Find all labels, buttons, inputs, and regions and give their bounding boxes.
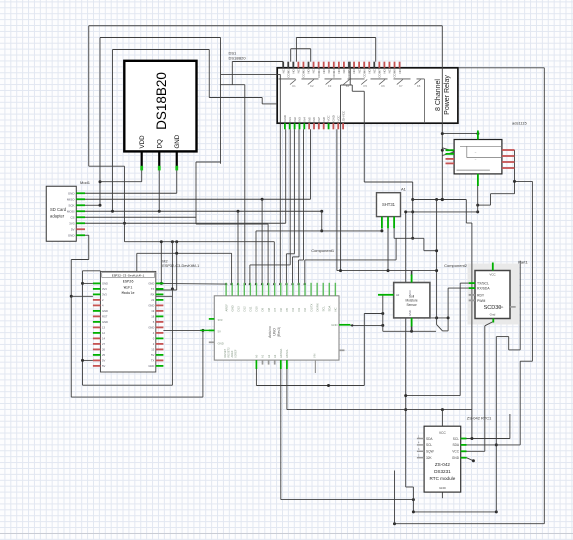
wire net-A corner H y166: [89, 165, 125, 167]
wire trunk y409.6: [287, 409, 472, 411]
wire net-C horizontal y49.5: [113, 49, 210, 51]
wire stair x340.5: [340, 85, 342, 271]
svg-text:GND: GND: [148, 364, 154, 368]
wire trunk y253.3: [137, 252, 232, 254]
node junction x477.9 y133.6: [476, 132, 479, 135]
wire DS1-label horizontal y61.5: [232, 61, 283, 63]
temperature sensor DS18B20 U-DS1: [124, 61, 196, 171]
node stem top cap x256: [255, 283, 257, 285]
adc module ads1115: [446, 131, 515, 187]
svg-text:MOSI: MOSI: [67, 210, 75, 214]
co2 sensor SCD30 Part1: [469, 263, 516, 323]
node junction x411.6 y331.3: [410, 330, 413, 333]
svg-text:GND: GND: [452, 456, 460, 460]
svg-text:25: 25: [102, 353, 105, 357]
svg-text:GND: GND: [102, 282, 108, 286]
wire stair H y85: [341, 84, 353, 86]
svg-text:NO: NO: [367, 68, 371, 73]
wire RTC top VCC drop: [441, 410, 443, 427]
wire ads stair H y205.1: [478, 204, 491, 206]
wire V x336.9: [336, 129, 338, 270]
wire stem5 x249.9: [249, 265, 251, 284]
node stem top cap x231.6: [230, 283, 232, 285]
svg-text:TX: TX: [151, 287, 155, 291]
node junction x412.7 y199.5: [411, 198, 414, 201]
wire H y259.9 right: [305, 259, 396, 261]
node stem top cap x274.3: [273, 283, 275, 285]
node junction x412.7 y211.9: [411, 210, 414, 213]
wire net-C horizontal y103.9: [262, 103, 277, 105]
node junction x176.7 y241.7: [175, 240, 178, 243]
wire relay-top U link: [291, 48, 311, 50]
svg-text:Component2: Component2: [444, 263, 468, 268]
svg-text:SEL: SEL: [498, 305, 504, 309]
wire stem6 x256: [255, 231, 257, 284]
wire H y199.5 right: [413, 199, 467, 201]
node stem top cap x226.1: [225, 283, 227, 285]
wire net-C vertical x262.2: [261, 98, 263, 104]
svg-text:ESP26: ESP26: [123, 281, 134, 285]
svg-text:JD-VCC: JD-VCC: [341, 111, 345, 122]
node junction x82.5 y283.4: [81, 282, 84, 285]
wire V x520.2 lower to RTC SDA: [519, 361, 521, 445]
svg-text:SCL: SCL: [453, 437, 459, 441]
rtc module ZS-042 DS3231 RTC1: [417, 426, 467, 492]
svg-text:5V: 5V: [102, 364, 105, 368]
svg-text:VCC: VCC: [439, 431, 446, 435]
wire relay-top horizontal y37.5: [296, 37, 375, 39]
svg-text:NC: NC: [281, 69, 285, 73]
svg-text:ZS-042: ZS-042: [435, 462, 451, 467]
svg-text:5V: 5V: [102, 359, 105, 363]
svg-text:K2: K2: [310, 84, 314, 88]
node junction x71.25 y296.3: [70, 295, 73, 298]
wire relay inner V x350.2: [349, 62, 351, 85]
node junction x388 y270.6: [387, 269, 390, 272]
wire MCU A5 drop x286.9: [286, 369, 288, 410]
svg-text:Arduino: Arduino: [268, 326, 272, 338]
node junction x394.5 y523.7: [393, 522, 396, 525]
node junction x436.6 y250.7: [435, 249, 438, 252]
svg-text:NC: NC: [297, 69, 301, 73]
svg-text:DQ: DQ: [156, 139, 163, 148]
node junction x496.3 y444.9: [495, 443, 498, 446]
wire V x496.3: [495, 337, 497, 512]
svg-text:IN2: IN2: [293, 117, 297, 122]
wire SCD SDA H: [448, 287, 469, 289]
svg-text:IN4: IN4: [303, 117, 307, 122]
svg-text:RST: RST: [102, 315, 108, 319]
svg-text:SD Card: SD Card: [50, 207, 67, 212]
svg-text:NO: NO: [292, 68, 296, 73]
wire stair x364.25: [363, 91, 365, 182]
wire H y511.9: [413, 511, 496, 513]
wire V x448.1: [447, 288, 449, 331]
svg-text:VIN: VIN: [312, 354, 316, 358]
sd card adapter module Mod1: [46, 186, 85, 241]
svg-text:adapter: adapter: [50, 214, 65, 219]
wire H y264.9: [250, 264, 290, 266]
svg-text:3V3: 3V3: [218, 318, 223, 322]
wire RTC SCL H: [461, 438, 510, 440]
node junction x436.6 y270.6: [435, 269, 438, 272]
svg-text:GND: GND: [102, 320, 108, 324]
svg-text:D13: D13: [236, 306, 240, 312]
svg-text:M2: M2: [162, 260, 167, 264]
wire stem8 vertical x268.1: [267, 224, 269, 284]
wire ads left diag1: [442, 148, 454, 152]
node junction x161.3 y241.7: [160, 240, 163, 243]
wire stair right down: [520, 360, 532, 362]
wire SD SCK row y205.25: [85, 204, 100, 206]
svg-text:ESP32-C3-DevKitM-1: ESP32-C3-DevKitM-1: [112, 273, 145, 277]
wire MCU GND H y325.4: [351, 324, 383, 326]
wire SHT pin2 drop: [387, 228, 389, 270]
node junction x321.75 y230.9: [320, 229, 323, 232]
wire RTC bottom stub: [441, 492, 443, 498]
wire H y331.3: [383, 330, 436, 332]
svg-text:NC: NC: [342, 69, 346, 73]
node junction x442.3 y133.6: [441, 132, 444, 135]
svg-text:D4: D4: [291, 307, 295, 311]
wire SCD GND diag: [485, 322, 494, 326]
svg-text:Component1: Component1: [311, 248, 335, 253]
svg-text:GND: GND: [331, 323, 337, 327]
svg-text:NC: NC: [372, 69, 376, 73]
wire soil left V x382.8: [382, 295, 384, 332]
wire SHT pin3 path: [393, 228, 395, 238]
wire H y487 jog: [406, 486, 414, 488]
svg-text:RESET: RESET: [223, 348, 227, 357]
wire SD CS row y217.25: [85, 216, 196, 218]
svg-text:COM7: COM7: [378, 69, 382, 78]
svg-text:SDA: SDA: [426, 437, 433, 441]
wire trunk y211.9: [406, 211, 478, 213]
wire stem3 vertical x238: [237, 211, 239, 284]
svg-text:D8: D8: [267, 307, 271, 311]
svg-text:IOREF: IOREF: [234, 349, 238, 357]
svg-text:18: 18: [151, 315, 154, 319]
svg-text:CS: CS: [70, 216, 74, 220]
node junction x405.7 y409.6: [404, 408, 407, 411]
node junction x100 y205.25: [99, 204, 102, 207]
svg-text:3V3: 3V3: [69, 222, 75, 226]
svg-text:D7: D7: [273, 307, 277, 311]
wire SCD SCL H: [460, 282, 469, 284]
node junction x112.5 y211.25: [111, 210, 114, 213]
svg-text:TX/SCL: TX/SCL: [477, 282, 489, 286]
svg-text:GND: GND: [439, 486, 447, 490]
wire SD MOSI trunk y211.25: [85, 210, 322, 212]
svg-text:22: 22: [151, 298, 154, 302]
wire ads VCC H y133.6: [442, 133, 478, 135]
node junction x262.1 y199.25: [261, 198, 264, 201]
svg-text:PWM: PWM: [477, 299, 485, 303]
svg-text:A0: A0: [396, 293, 400, 297]
page boundary line: [0, 533, 573, 535]
svg-text:32K: 32K: [426, 456, 433, 460]
svg-text:GND: GND: [230, 305, 234, 311]
wire V x405.7: [405, 212, 407, 487]
wire MCU left pin1 green stub: [200, 329, 214, 331]
svg-text:A4/SDA: A4/SDA: [279, 349, 283, 358]
wire net-B vertical x220.5 upper: [220, 38, 222, 75]
svg-text:IN3: IN3: [298, 117, 302, 122]
node stem top cap x244.8: [244, 283, 246, 285]
svg-text:5V: 5V: [218, 330, 222, 334]
wire H y499.6: [281, 499, 414, 501]
wire V x310.5 relay IN4: [310, 129, 312, 199]
svg-text:IN6: IN6: [312, 117, 316, 122]
wire soil bottom drop: [411, 326, 413, 331]
wire net-A vertical left: [88, 26, 90, 166]
wire relay IN4 drop: [303, 129, 305, 260]
wire V x176.7: [176, 242, 178, 290]
svg-text:A1: A1: [401, 187, 407, 192]
svg-text:COM1: COM1: [286, 69, 290, 78]
wire V x460.2: [459, 283, 461, 396]
svg-text:8 Channel: 8 Channel: [435, 79, 442, 111]
wire H y223 jog: [466, 222, 472, 224]
svg-text:AREF: AREF: [224, 304, 228, 312]
svg-text:NO: NO: [352, 68, 356, 73]
wire V x413.4: [412, 487, 414, 512]
wire V x202.9: [202, 330, 204, 397]
svg-text:VDD: VDD: [139, 135, 146, 149]
svg-text:GND: GND: [174, 134, 181, 148]
svg-text:5V: 5V: [71, 228, 75, 232]
node junction x477.7 y211.9: [476, 210, 479, 213]
svg-text:D5: D5: [285, 307, 289, 311]
svg-text:VCC: VCC: [336, 115, 340, 121]
humidity sensor SHT31 A1: [377, 193, 401, 229]
svg-text:Sensor: Sensor: [407, 303, 418, 307]
svg-text:NO: NO: [337, 68, 341, 73]
svg-text:K4: K4: [346, 84, 350, 88]
svg-text:~: ~: [475, 158, 477, 162]
wire vertical x220.5 y74-84: [220, 74, 222, 84]
svg-text:D11: D11: [249, 306, 253, 311]
svg-text:SDA: SDA: [452, 443, 459, 447]
svg-text:DS3231: DS3231: [434, 469, 451, 474]
svg-text:GND: GND: [148, 304, 154, 308]
wire V x136.8 to module top: [136, 253, 138, 271]
wire H y395.6: [406, 395, 461, 397]
svg-text:D10: D10: [255, 306, 259, 312]
svg-text:GND: GND: [218, 341, 224, 345]
node junction x328.5 y385.5: [327, 384, 330, 387]
wire DS DQ pin drop: [158, 169, 160, 211]
wire trunk y270.6: [337, 270, 437, 272]
wire net-B horizontal y74.4: [221, 73, 281, 75]
svg-text:Gnd: Gnd: [490, 313, 496, 317]
svg-text:D1/TX: D1/TX: [309, 303, 313, 311]
svg-text:RESET2: RESET2: [226, 347, 230, 358]
node junction x471.9 y438.5: [470, 437, 473, 440]
wire V x484.8: [484, 326, 486, 452]
wire V x436.6 long: [436, 200, 438, 325]
wire DS GND pin drop: [176, 169, 178, 193]
svg-text:ESP32-C3-DevKitM-1: ESP32-C3-DevKitM-1: [162, 264, 199, 268]
wire relay-top pin drop x375.7: [375, 38, 377, 62]
svg-text:GND: GND: [148, 282, 154, 286]
svg-text:K5: K5: [363, 84, 367, 88]
svg-text:DS18B20: DS18B20: [154, 72, 169, 130]
wire horizontal y84.7: [220, 84, 245, 86]
node stem top cap x262.1: [261, 283, 263, 285]
wire DS VDD pin drop: [141, 169, 143, 182]
node junction x514.5 y181.4: [513, 180, 516, 183]
wire module row1 left H: [83, 282, 93, 284]
svg-text:SCL: SCL: [426, 443, 432, 447]
wire V x471.9 to RTC SCL: [471, 223, 473, 439]
svg-text:UNO: UNO: [273, 328, 277, 336]
node junction x442.3 y199.5: [441, 198, 444, 201]
wire SD p6 row y223.25: [85, 222, 286, 224]
svg-text:K1: K1: [292, 84, 296, 88]
wire SD MISO trunk y199.25: [85, 198, 311, 200]
svg-text:NC: NC: [334, 307, 338, 311]
wire V x285.7 relay GND: [285, 129, 287, 223]
svg-text:GND: GND: [102, 309, 108, 313]
svg-text:Part1: Part1: [518, 259, 528, 264]
node junction x382.8 y313.5: [381, 312, 384, 315]
svg-text:Mod1: Mod1: [80, 180, 91, 185]
wire V x520.2 upper: [519, 261, 521, 350]
wire V x466.3: [465, 200, 467, 224]
wire V x88.75 low: [88, 235, 90, 259]
wire relay IN3 drop: [298, 129, 300, 257]
svg-text:SDA: SDA: [327, 306, 331, 312]
svg-text:GND: GND: [283, 115, 287, 121]
wire stair H y91.25: [352, 90, 364, 92]
wire net-B vertical x100: [99, 38, 101, 206]
wire H y385.2 module U: [83, 384, 173, 386]
node junction x413.4 y499.6: [412, 498, 415, 501]
wire V x532.4: [531, 181, 533, 361]
node junction x405.7 y395.6: [404, 394, 407, 397]
wire H y224.1: [196, 223, 268, 225]
svg-text:RDY: RDY: [477, 293, 485, 297]
wire ads stair V x490.5: [490, 194, 492, 205]
svg-text:COM4: COM4: [332, 69, 336, 78]
wire MCU A4 long drop x280.8: [280, 369, 282, 500]
svg-text:NO: NO: [322, 68, 326, 73]
svg-text:D12: D12: [243, 306, 247, 312]
node stem top cap x238: [237, 283, 239, 285]
wire diag soil right: [437, 325, 443, 331]
wire stair V x352.25: [351, 85, 353, 91]
wire V x321.75: [321, 211, 323, 231]
wire H y270.8 to module corner: [83, 270, 101, 272]
node junction x172.4 y241.7: [171, 240, 174, 243]
wire net-A horizontal top: [89, 25, 443, 27]
node stem top cap x298.7: [298, 283, 300, 285]
wire net-B vertical x280.3 to stem10: [279, 74, 281, 284]
svg-text:D2: D2: [303, 307, 307, 311]
node stem top cap x304.8: [304, 283, 306, 285]
svg-text:COM6: COM6: [362, 69, 366, 78]
svg-text:NC: NC: [312, 69, 316, 73]
svg-text:NO: NO: [398, 68, 402, 73]
wire V x172.4: [171, 242, 173, 386]
svg-text:VCC: VCC: [408, 290, 412, 296]
svg-text:Module: Module: [122, 291, 135, 296]
node junction x161.3 y283.4: [160, 282, 163, 285]
svg-text:A3: A3: [273, 354, 277, 358]
node junction x321.75 y211.25: [320, 210, 323, 213]
svg-text:DS18B20: DS18B20: [229, 56, 247, 61]
wire relay IN2 drop: [293, 129, 295, 254]
wire stem2 vertical x231.6: [231, 253, 233, 284]
svg-text:D0/RX: D0/RX: [315, 303, 319, 311]
svg-text:NC: NC: [327, 69, 331, 73]
wire RTC SDA H: [461, 444, 521, 446]
wire relay-top pin drop x296.4: [295, 38, 297, 62]
wire net-A vertical right x442: [441, 26, 443, 200]
svg-text:IN1: IN1: [288, 117, 292, 122]
wire H y313.5: [364, 313, 383, 315]
wire net-B horizontal y37.5: [100, 37, 221, 39]
wire V x394.5 low: [394, 471, 396, 524]
wire net-C vertical x209.25: [208, 50, 210, 98]
node junction x496.3 y511.9: [495, 510, 498, 513]
wire module row2 right H: [156, 289, 177, 291]
svg-text:WiFi: WiFi: [124, 285, 133, 290]
svg-text:NC: NC: [357, 69, 361, 73]
svg-text:14: 14: [102, 337, 105, 341]
wire relay NO-out right: [458, 67, 544, 69]
svg-text:NC: NC: [388, 69, 392, 73]
microcontroller Arduino UNO U1: [209, 283, 351, 373]
svg-text:A1: A1: [261, 354, 265, 358]
node stem top cap x280.3: [279, 283, 281, 285]
svg-text:ZS-042 RTC1: ZS-042 RTC1: [467, 415, 492, 420]
node junction x436.6 y317.9: [435, 316, 438, 319]
svg-text:COM3: COM3: [317, 69, 321, 78]
svg-text:NO: NO: [307, 68, 311, 73]
svg-text:3V3: 3V3: [102, 293, 107, 297]
svg-text:A0: A0: [255, 354, 259, 358]
svg-text:VCC: VCC: [452, 450, 459, 454]
svg-text:3V3: 3V3: [102, 287, 107, 291]
svg-text:19: 19: [151, 309, 154, 313]
wire H y259.5: [71, 259, 89, 261]
node junction x473.4 y460.8: [472, 459, 475, 462]
svg-text:GND: GND: [408, 310, 412, 316]
node junction x412.7 y238.3: [411, 237, 414, 240]
node junction x159.25 y211.25: [158, 210, 161, 213]
wire ads bottom pin V: [477, 186, 479, 212]
wire SD GND row y193.25: [85, 192, 177, 194]
svg-text:COM8: COM8: [393, 69, 397, 78]
node junction x442.3 y150: [441, 149, 444, 152]
svg-text:K3: K3: [328, 84, 332, 88]
node junction x413.4 y511.9: [412, 510, 415, 513]
svg-text:(Rev3): (Rev3): [277, 327, 281, 337]
wire soil top pin drop: [411, 271, 413, 276]
node junction x477.7 y205.1: [476, 204, 479, 207]
node junction x340.5 y270.6: [339, 269, 342, 272]
relay module 8-channel power relay: [277, 62, 458, 130]
wire module row1 right H to stem1: [156, 282, 226, 285]
wire H y385.5: [256, 385, 364, 387]
svg-text:26: 26: [102, 348, 105, 352]
node stem top cap x249.9: [249, 283, 251, 285]
svg-text:K7: K7: [399, 84, 403, 88]
scd30 halo backdrop: [468, 264, 520, 325]
svg-text:A5/SCL: A5/SCL: [285, 349, 289, 358]
